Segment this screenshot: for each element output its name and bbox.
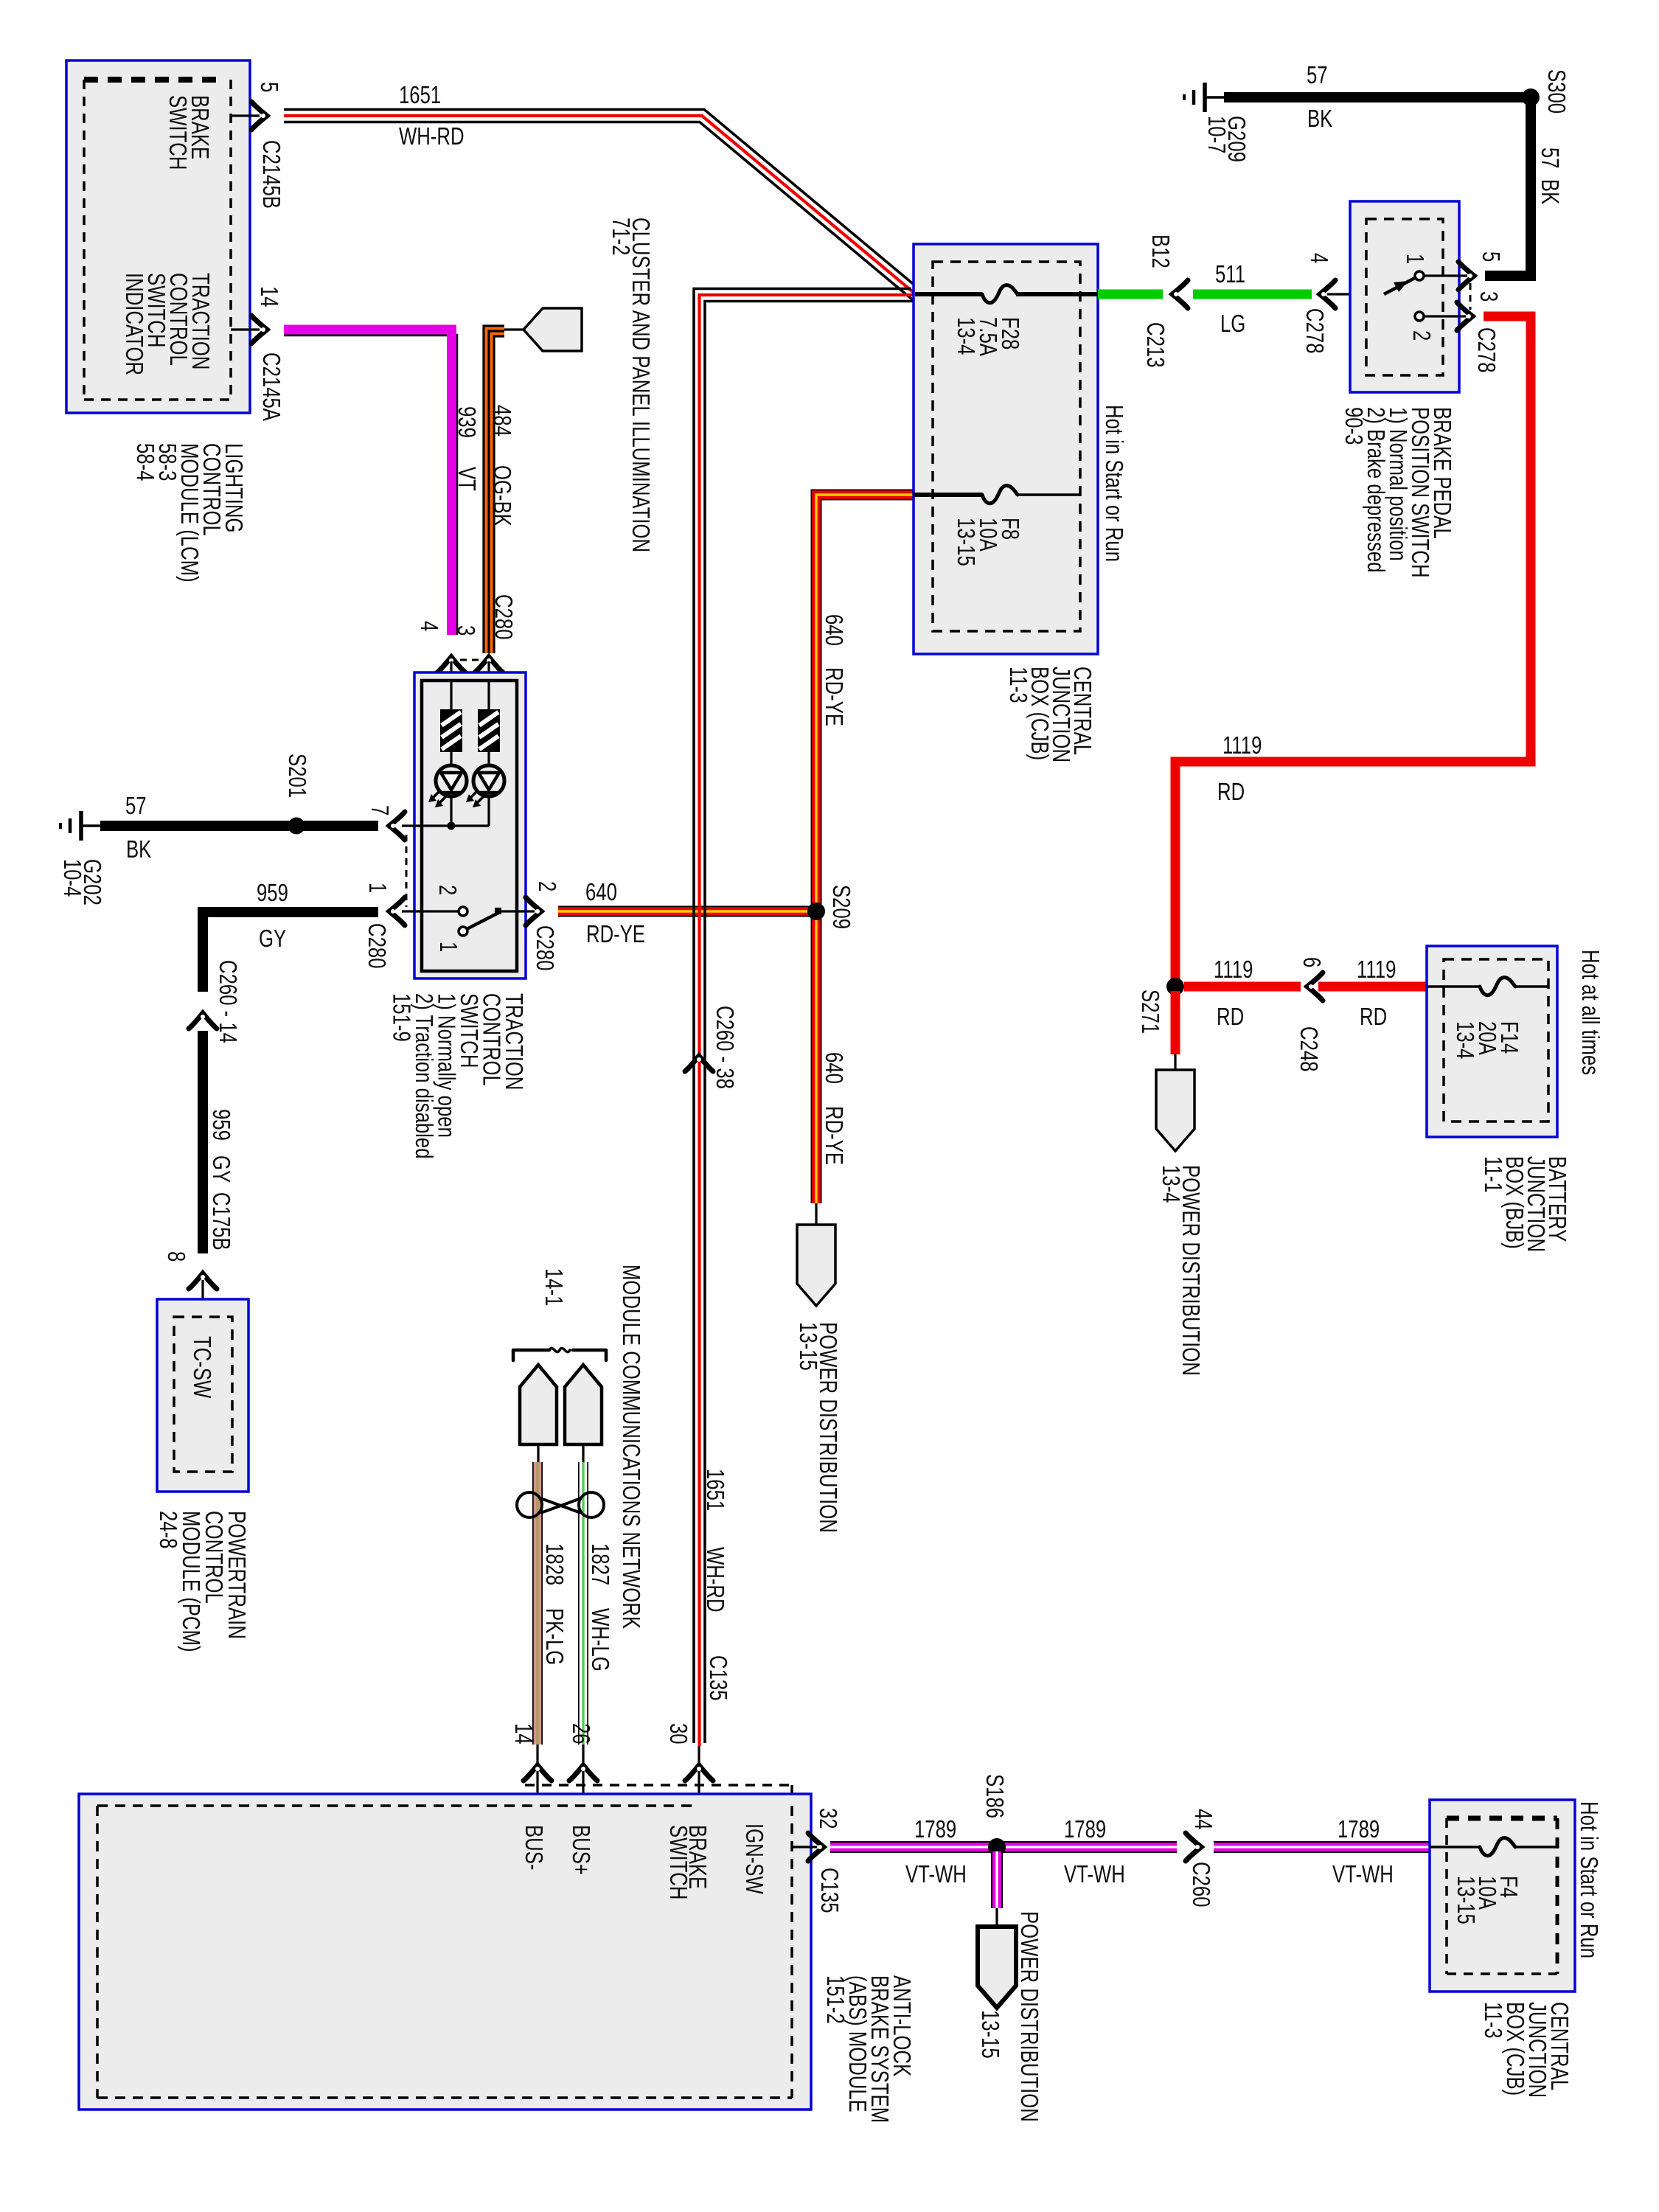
wire pin7 internal (402, 824, 489, 827)
lead S186 pentagon (995, 1908, 998, 1927)
wire S186 drop outline (991, 1851, 1003, 1908)
svg-text:3: 3 (452, 625, 479, 636)
module box CENTRAL JUNCTION BOX (CJB) (914, 244, 1098, 654)
label pin 32 (814, 1808, 841, 1829)
connector POWER DISTRIBUTION 13-15 (S186) (978, 1927, 1016, 2008)
svg-text:C280: C280 (490, 594, 517, 640)
svg-text:VT-WH: VT-WH (905, 1861, 967, 1888)
svg-text:1: 1 (1401, 254, 1428, 264)
dashed connector C278 right (1470, 283, 1472, 310)
label 57 (G202) (125, 793, 147, 820)
dashed connector C280 left (406, 835, 408, 907)
label LG (1220, 310, 1245, 338)
wire 57 BK (100, 821, 378, 831)
junction LED common (448, 822, 456, 830)
LCM inner dashed right (229, 80, 232, 400)
svg-text:1789: 1789 (1338, 1816, 1380, 1843)
BPP contact 1 (1415, 271, 1424, 280)
connector arrow C278 pin 4 (1320, 280, 1335, 308)
module box CENTRAL JUNCTION BOX (CJB) bottom (1430, 1800, 1575, 1992)
label pin 3 (C278) (1475, 291, 1502, 302)
svg-text:14: 14 (255, 286, 282, 307)
label VT-WH seg2 (1064, 1861, 1125, 1888)
wire 1119 RD main (1175, 316, 1531, 982)
label Hot in Start or Run (top CJB) (1100, 405, 1127, 562)
wire 484 OG-BK black stripe (489, 331, 504, 653)
label VT-WH seg1 (905, 1861, 967, 1888)
svg-text:C260 - 38: C260 - 38 (711, 1006, 738, 1089)
BPP wire pin3 (1424, 315, 1466, 317)
svg-text:WH-RD: WH-RD (701, 1547, 728, 1613)
label Hot at all times (1576, 950, 1604, 1075)
wire 484 OG-BK orange (489, 331, 504, 653)
label C175B (207, 1192, 234, 1251)
label S209 (827, 885, 855, 929)
label RD-YE upper (820, 667, 847, 726)
svg-text:BK: BK (126, 836, 152, 863)
svg-text:2: 2 (1408, 330, 1435, 341)
wire 959 GY upper (203, 912, 378, 992)
svg-text:1827: 1827 (586, 1543, 613, 1585)
label 640 upper (820, 614, 847, 646)
BPP inner dashed (1366, 219, 1443, 375)
label 959 (257, 880, 288, 907)
svg-text:640: 640 (585, 879, 617, 906)
label VT (453, 467, 480, 491)
label CENTRAL JUNCTION BOX (CJB) 11-3 (bottom) (1479, 2002, 1573, 2098)
label 939 (453, 406, 480, 438)
label BRAKE PEDAL POSITION SWITCH notes (1340, 407, 1455, 578)
svg-text:BK: BK (1307, 105, 1333, 133)
splice S271 (1166, 978, 1184, 995)
label C213 (1141, 322, 1169, 368)
svg-text:S300: S300 (1543, 69, 1570, 114)
svg-text:4: 4 (1305, 253, 1332, 263)
svg-text:13-4: 13-4 (1157, 1165, 1184, 1203)
wire 1789 VT-WH seg3 stripe (1214, 1846, 1430, 1848)
connector MODULE COMMUNICATIONS NETWORK 1 (520, 1365, 557, 1444)
resistor R2 (478, 709, 500, 752)
splice S186 (988, 1838, 1006, 1856)
wire resistor2 to LED2 (487, 752, 490, 765)
wire 1651 WH-RD return red (700, 295, 917, 1746)
svg-text:13-15: 13-15 (1452, 1876, 1479, 1924)
label BUS- (520, 1825, 547, 1870)
svg-text:LG: LG (1220, 310, 1245, 338)
wire S186 drop magenta (992, 1851, 1001, 1908)
BPP lever arrowhead (1394, 281, 1408, 292)
svg-text:2: 2 (434, 885, 461, 895)
label OG-BK (488, 465, 515, 526)
label C135 (top) (704, 1655, 731, 1701)
wire 640 RD-YE vert yellow (816, 495, 914, 1203)
fuse F28 wire right (1016, 292, 1098, 296)
wire 1827 WH-LG stripe (582, 1462, 584, 1745)
switch lever tip (495, 908, 501, 914)
svg-text:RD-YE: RD-YE (586, 921, 645, 948)
svg-text:3: 3 (1475, 291, 1502, 302)
label C248 (1295, 1026, 1322, 1072)
label C2145B (257, 140, 285, 209)
svg-text:GY: GY (207, 1155, 234, 1183)
svg-text:MODULE COMMUNICATIONS NETWORK: MODULE COMMUNICATIONS NETWORK (617, 1265, 644, 1629)
label C260 - 38 (711, 1006, 738, 1089)
label S201 (283, 754, 310, 798)
svg-text:POWER DISTRIBUTION: POWER DISTRIBUTION (1015, 1911, 1043, 2122)
module box TRACTION CONTROL SWITCH (414, 672, 526, 978)
wire 1789 VT-WH seg1 stripe (830, 1846, 1177, 1848)
fuse F8 10A (982, 486, 1018, 504)
wire 1651 WH-RD red stripe (284, 116, 917, 295)
label BRAKE SWITCH (pin30) (664, 1825, 711, 1899)
label pin 5 (C278) (1477, 251, 1504, 262)
label 13-15 (640) (794, 1322, 821, 1371)
wire resistor1 top (450, 681, 452, 709)
ABS inner dashed right (790, 1806, 793, 2098)
connector arrow C278 pin 3 (1457, 302, 1472, 330)
connector arrow C280 pin 3 (475, 657, 503, 672)
wire 1651 WH-RD outline bottom (284, 122, 913, 300)
svg-text:959: 959 (207, 1109, 234, 1141)
svg-text:VT-WH: VT-WH (1332, 1861, 1394, 1888)
label F4 10A 13-15 (1452, 1876, 1522, 1924)
switch contact 2 (459, 907, 467, 916)
CJB2 inner dashed left (1445, 1818, 1448, 1974)
svg-text:90-3: 90-3 (1340, 407, 1367, 445)
wire 1119 S271-C248 (1184, 982, 1301, 992)
svg-text:Hot in Start or Run: Hot in Start or Run (1575, 1801, 1602, 1958)
wire 640 RD-YE horiz yellow (558, 910, 812, 912)
label C278 (pin4) (1301, 308, 1328, 354)
fuse F28 wire left (915, 292, 982, 296)
svg-text:13-4: 13-4 (952, 317, 979, 355)
label pin 6 (1298, 957, 1325, 967)
connector arrow C175B pin 8 (189, 1273, 217, 1289)
wire resistor2 top (487, 681, 490, 709)
label 57 (G209) (1307, 62, 1328, 89)
fuse F8 wire right (1016, 493, 1080, 496)
PCM inner dashed (174, 1317, 232, 1472)
svg-text:11-1: 11-1 (1479, 1156, 1506, 1193)
label S300 (1543, 69, 1570, 114)
svg-text:151-2: 151-2 (821, 1975, 849, 2024)
connector arrow C213 B12 (1172, 280, 1188, 308)
label pin 2 (533, 881, 560, 891)
svg-text:C280: C280 (363, 923, 390, 969)
module box BRAKE PEDAL POSITION SWITCH (1350, 201, 1459, 392)
label 1827 (586, 1543, 613, 1585)
svg-text:1789: 1789 (1064, 1816, 1106, 1843)
svg-text:INDICATOR: INDICATOR (120, 273, 147, 375)
svg-text:BUS-: BUS- (520, 1825, 547, 1870)
svg-text:C260: C260 (1187, 1862, 1214, 1907)
connector arrow C248 pin 6 (1307, 973, 1323, 1001)
svg-text:S209: S209 (827, 885, 855, 929)
label pin 1 (364, 883, 391, 893)
label ANTI-LOCK BRAKE SYSTEM (ABS) MODULE 151-2 (821, 1975, 915, 2123)
connector arrow C260 pin 44 (1186, 1833, 1201, 1861)
label G202 10-4 (58, 859, 105, 905)
CJB inner dashed (933, 262, 1080, 631)
BPP lever (1384, 278, 1415, 294)
label B12 (1147, 234, 1174, 268)
label IGN-SW (740, 1823, 768, 1894)
svg-text:PK-LG: PK-LG (540, 1608, 568, 1665)
svg-text:959: 959 (257, 880, 288, 907)
label pin 14 (255, 286, 282, 307)
label 959 lower (207, 1109, 234, 1141)
label RD-YE (586, 921, 645, 948)
CJB2 inner dashed right (1556, 1818, 1559, 1974)
LCM inner dashed bottom (84, 398, 231, 401)
label 484 (488, 405, 515, 437)
svg-text:32: 32 (814, 1808, 841, 1829)
label G209 10-7 (1203, 116, 1250, 162)
fuse F14 20A (1480, 978, 1515, 995)
svg-text:C2145B: C2145B (257, 140, 285, 209)
label F8 10A 13-15 (952, 518, 1023, 566)
lead into PCM (201, 1280, 204, 1317)
ground G209 (1184, 83, 1224, 112)
svg-text:C278: C278 (1301, 308, 1328, 354)
splice S209 (807, 902, 825, 920)
wire 484 OG-BK outline (484, 326, 504, 653)
svg-text:1: 1 (434, 942, 462, 952)
svg-text:RD: RD (1360, 1004, 1387, 1031)
lead pin26 (582, 1745, 584, 1806)
CJB2 inner dashed bottom (1447, 1972, 1557, 1975)
wire 1651 WH-RD return bottom (705, 302, 922, 1744)
svg-text:C260 - 14: C260 - 14 (214, 960, 241, 1043)
wire 1119 below S271 (1171, 991, 1180, 1054)
connector CLUSTER AND PANEL ILLUMINATION (524, 308, 582, 351)
label C260 - 14 (214, 960, 241, 1043)
label 13-15 (S186) (976, 2010, 1004, 2059)
BJB inner dashed (1444, 959, 1548, 1121)
module box POWERTRAIN CONTROL MODULE (PCM) (157, 1299, 248, 1492)
connector arrow C260-14 (189, 1013, 217, 1029)
lead 640 to pentagon (815, 1203, 817, 1225)
fuse F4 10A (1480, 1838, 1515, 1856)
label GY lower (207, 1155, 234, 1183)
svg-text:SWITCH: SWITCH (164, 95, 191, 170)
switch lever (467, 913, 498, 929)
svg-text:C278: C278 (1472, 327, 1500, 373)
connector arrow C278 pin 5 (1458, 262, 1474, 290)
lead pentagon1 (537, 1444, 539, 1462)
cluster lead (504, 328, 523, 330)
ground G202 (60, 811, 100, 841)
wire pin5 lead (231, 114, 260, 116)
label 1789 seg3 (1338, 1816, 1380, 1843)
splice S201 (288, 818, 305, 835)
wire 1827 WH-LG white (580, 1462, 588, 1745)
wire 1789 VT-WH seg1 outline (830, 1841, 1177, 1853)
LCM inner dashed left (83, 80, 86, 400)
wire S186 drop stripe (995, 1851, 998, 1908)
label TRACTION CONTROL SWITCH INDICATOR (120, 273, 214, 375)
wire 640 RD-YE horiz red (558, 907, 812, 916)
wire 511 LG seg1 (1098, 290, 1163, 299)
wire 939 VT (284, 330, 452, 635)
svg-text:1789: 1789 (914, 1816, 956, 1843)
connector arrow C135 pin 32 (808, 1833, 824, 1861)
svg-text:1651: 1651 (399, 82, 441, 109)
label BK (G209) (1307, 105, 1333, 133)
label LIGHTING CONTROL MODULE (LCM) 58-3 58-4 (131, 443, 247, 582)
splice S300 (1522, 88, 1540, 106)
svg-text:44: 44 (1189, 1809, 1217, 1830)
switch wire right (501, 910, 535, 912)
label C278 (right) (1472, 327, 1500, 373)
module box LIGHTING CONTROL MODULE (LCM) (66, 60, 250, 413)
svg-text:13-15: 13-15 (976, 2010, 1004, 2059)
svg-text:Hot at all times: Hot at all times (1576, 950, 1604, 1075)
switch contact 1 (459, 927, 467, 936)
connector arrow C280 pin 4 (437, 657, 465, 672)
lead pin4 into box (450, 661, 452, 681)
svg-text:6: 6 (1298, 957, 1325, 967)
svg-text:640: 640 (820, 1052, 847, 1084)
label RD (S271) (1217, 1004, 1244, 1031)
wire resistor1 to LED1 (450, 752, 452, 765)
svg-text:WH-LG: WH-LG (586, 1608, 613, 1672)
LED indicator 1 (436, 765, 467, 796)
fuse F14 wire right (1515, 985, 1548, 988)
wire 1789 VT-WH seg3 magenta (1214, 1843, 1430, 1851)
label WH-RD (399, 123, 465, 150)
svg-text:71-2: 71-2 (607, 218, 634, 255)
svg-text:RD: RD (1217, 779, 1245, 806)
svg-text:484: 484 (488, 405, 515, 437)
twisted pair symbol (517, 1492, 604, 1517)
svg-text:14-1: 14-1 (540, 1268, 567, 1306)
label 1119 (S271) (1214, 956, 1253, 984)
label 1119 (BJB) (1357, 956, 1396, 984)
label pin 26 (C135) (567, 1723, 594, 1745)
svg-text:151-9: 151-9 (388, 993, 415, 1042)
wire 484 OG-BK outline2 (494, 336, 504, 653)
svg-text:VT-WH: VT-WH (1064, 1861, 1125, 1888)
svg-text:B12: B12 (1147, 234, 1174, 268)
wire 57 BK (S300) (1224, 97, 1531, 276)
svg-text:TC-SW: TC-SW (188, 1336, 215, 1398)
label VT-WH seg3 (1332, 1861, 1394, 1888)
connector arrow C2145A pin 14 (251, 316, 267, 344)
LED indicator 2 (473, 765, 504, 796)
label CENTRAL JUNCTION BOX (CJB) 11-3 (top) (1004, 667, 1096, 762)
TCS inner box (422, 681, 517, 971)
svg-text:C175B: C175B (207, 1192, 234, 1251)
label pin 14 (C135) (509, 1723, 537, 1745)
svg-text:8: 8 (162, 1251, 189, 1262)
label 511 (1215, 261, 1245, 288)
module box BATTERY JUNCTION BOX (BJB) (1427, 946, 1557, 1137)
svg-text:GY: GY (259, 925, 286, 953)
lead S271 pentagon (1174, 1054, 1176, 1070)
ABS inner dashed left (96, 1806, 99, 2098)
label POWER DISTRIBUTION (S186) (1015, 1911, 1043, 2122)
ABS inner dashed bottom (97, 2096, 792, 2099)
lead pin3 into box (487, 661, 490, 681)
label C280 pin2 (531, 925, 558, 971)
label pin 3 (452, 625, 479, 636)
fuse F4 wire right (1514, 1846, 1557, 1848)
svg-text:14: 14 (509, 1723, 537, 1745)
label C280 top (490, 594, 517, 640)
label 1651 vertical (701, 1469, 728, 1511)
svg-text:511: 511 (1215, 261, 1245, 288)
svg-text:10-7: 10-7 (1203, 116, 1230, 153)
svg-text:939: 939 (453, 406, 480, 438)
label PK-LG (540, 1608, 568, 1665)
connector POWER DISTRIBUTION 13-4 (1156, 1070, 1194, 1151)
label MODULE COMMUNICATIONS NETWORK (617, 1265, 644, 1629)
svg-text:C213: C213 (1141, 322, 1169, 368)
svg-text:2: 2 (533, 881, 560, 891)
svg-text:S271: S271 (1136, 990, 1164, 1034)
connector POWER DISTRIBUTION 13-15 (640) (797, 1225, 835, 1306)
label BRAKE SWITCH (164, 95, 213, 170)
wire LED2 to junction (487, 796, 490, 826)
bracket squiggle (549, 1348, 570, 1352)
svg-text:13-15: 13-15 (794, 1322, 821, 1371)
svg-text:57: 57 (125, 793, 147, 820)
connector arrow C135 pin 26 (569, 1765, 597, 1781)
label 13-4 (1157, 1165, 1184, 1203)
connector arrow C260-38 (685, 1056, 713, 1071)
connector MODULE COMMUNICATIONS NETWORK 2 (565, 1365, 602, 1444)
BPP contact 2 (1415, 312, 1424, 321)
svg-text:1828: 1828 (540, 1543, 568, 1585)
svg-text:CLUSTER AND PANEL ILLUMINATION: CLUSTER AND PANEL ILLUMINATION (627, 218, 654, 552)
label RD (BJB) (1360, 1004, 1387, 1031)
label C260 (pin44) (1187, 1862, 1214, 1907)
BPP wire pin5 (1424, 274, 1467, 276)
wire 1789 VT-WH seg3 outline (1214, 1841, 1430, 1853)
label contact 1 (434, 942, 462, 952)
lead pin14 (536, 1745, 538, 1806)
wire 939 VT outline (284, 335, 457, 636)
svg-text:C135: C135 (704, 1655, 731, 1701)
dashed connector C135 (525, 1784, 792, 1787)
label RD (main) (1217, 779, 1245, 806)
svg-text:RD-YE: RD-YE (820, 667, 847, 726)
label S271 (1136, 990, 1164, 1034)
label F28 7.5A 13-4 (952, 317, 1023, 356)
label TRACTION CONTROL SWITCH notes (388, 993, 527, 1159)
label POWER DISTRIBUTION (640) (814, 1322, 841, 1533)
connector arrow C280 pin 7 (389, 812, 405, 840)
svg-text:10-4: 10-4 (58, 859, 86, 897)
label pin 8 (162, 1251, 189, 1262)
fuse F8 wire left (914, 493, 982, 497)
svg-text:S186: S186 (981, 1774, 1008, 1818)
svg-text:26: 26 (567, 1723, 594, 1745)
label pin 7 (366, 805, 393, 815)
svg-text:11-3: 11-3 (1004, 667, 1032, 703)
label pin 4 (415, 621, 442, 631)
wire 1828 PK-LG stripe (536, 1462, 538, 1745)
svg-text:640: 640 (820, 614, 847, 646)
fuse F14 wire left (1427, 985, 1480, 988)
connector arrow C135 pin 14 (524, 1765, 552, 1781)
label GY (259, 925, 286, 953)
label S186 (981, 1774, 1008, 1818)
label RD-YE lower (820, 1106, 847, 1165)
dashed connector C135 corner (790, 1785, 793, 1806)
label BPP 2 (1408, 330, 1435, 341)
